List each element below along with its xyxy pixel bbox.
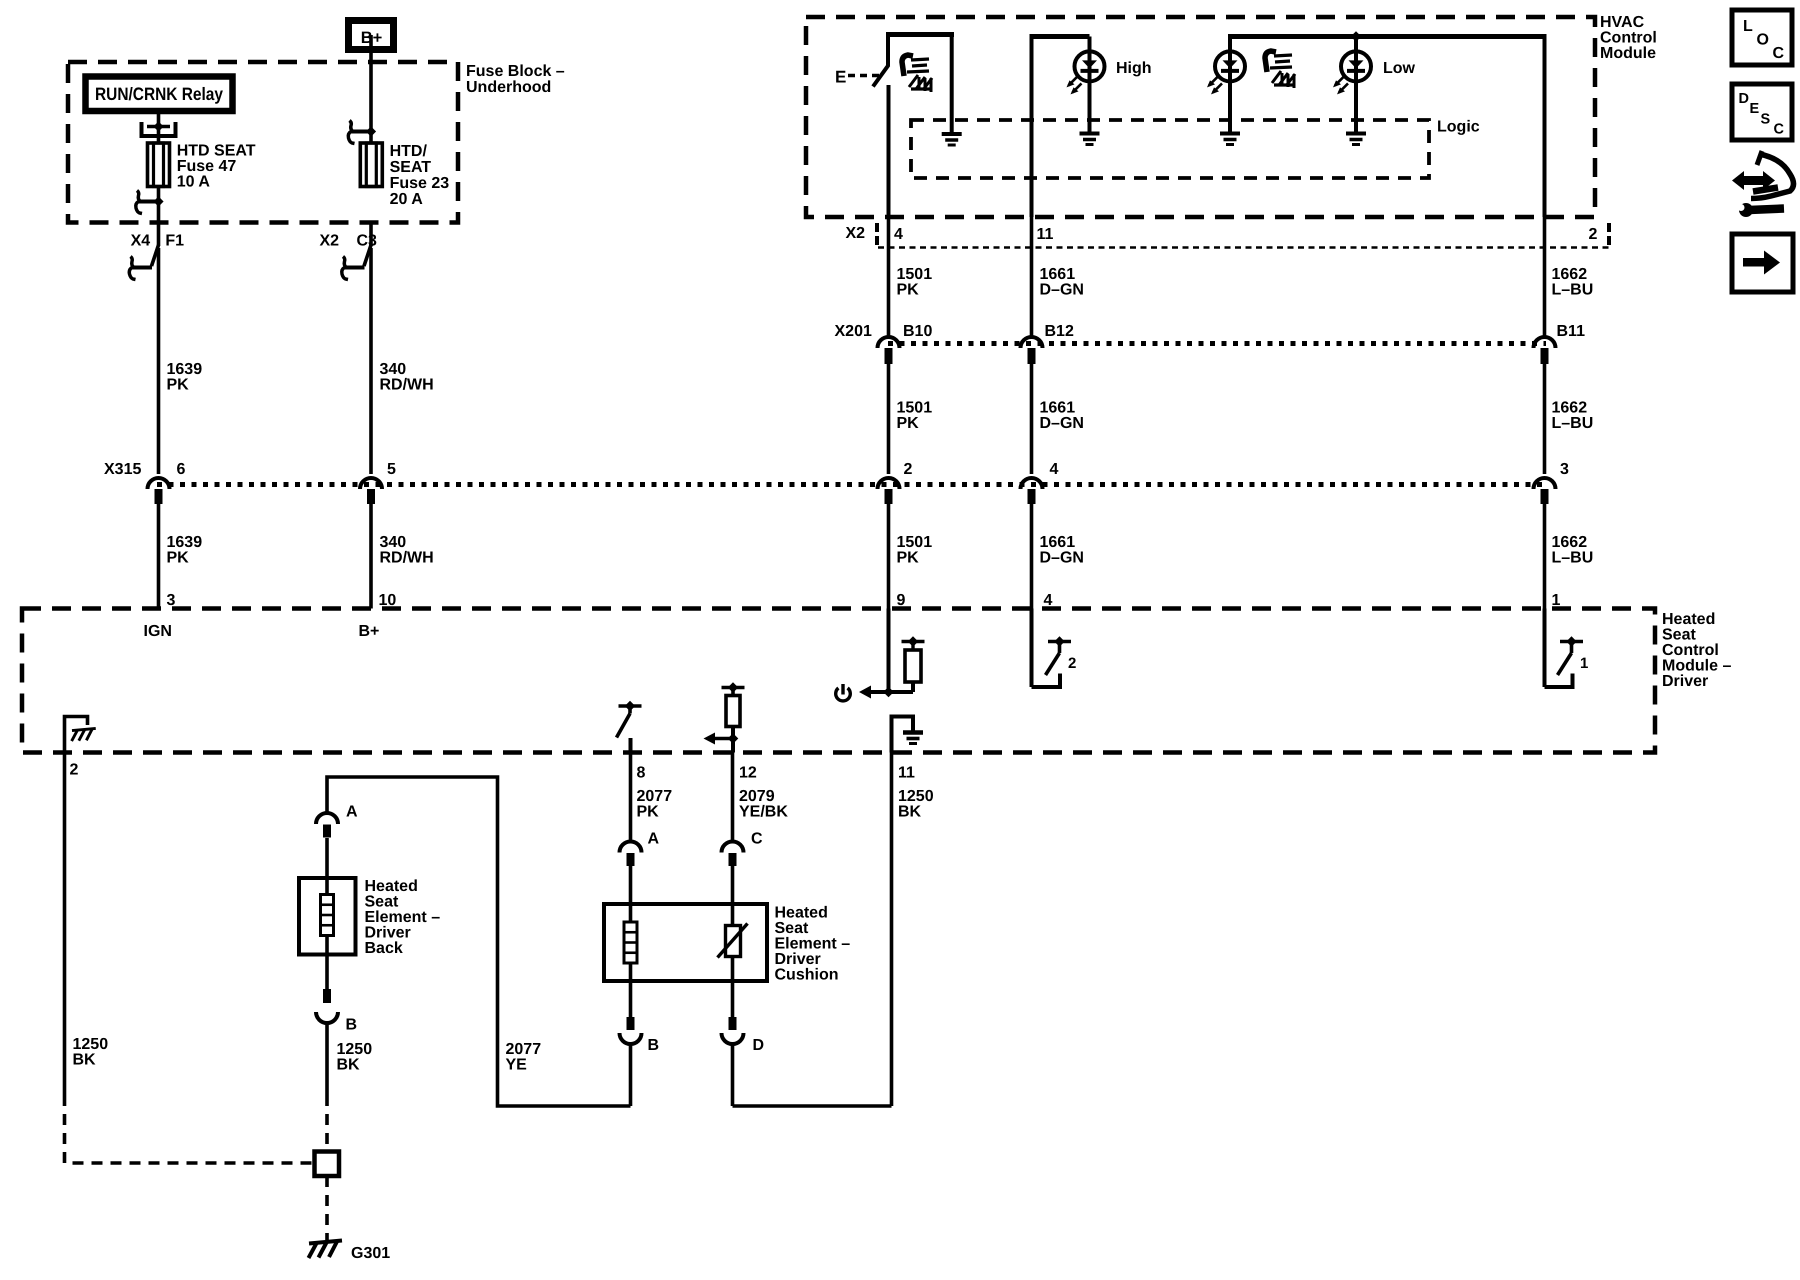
- svg-text:1661: 1661: [1040, 266, 1076, 283]
- wire 1250 BK back element: [325, 1023, 329, 1095]
- svg-text:A: A: [346, 804, 358, 821]
- ground G301: [309, 1241, 343, 1259]
- internal ground (pin 11): [892, 717, 914, 753]
- svg-text:E: E: [1750, 101, 1760, 117]
- wire splice to G301: [325, 1176, 329, 1240]
- svg-text:B+: B+: [359, 623, 380, 640]
- svg-text:RD/WH: RD/WH: [380, 550, 434, 567]
- svg-text:2: 2: [904, 461, 913, 478]
- svg-text:Back: Back: [365, 940, 403, 957]
- ground for left LED: [1228, 81, 1232, 132]
- svg-text:D: D: [1739, 91, 1749, 107]
- svg-text:2: 2: [70, 762, 79, 779]
- indicator LED High: [1088, 51, 1092, 81]
- svg-text:Cushion: Cushion: [775, 967, 839, 984]
- switch contact pin 1 (label 1): [1543, 609, 1547, 688]
- indicator LED Low: [1354, 37, 1358, 52]
- svg-text:D–GN: D–GN: [1040, 415, 1084, 432]
- svg-text:HTD/: HTD/: [390, 143, 428, 160]
- wire 1662 top rail: [1543, 34, 1547, 217]
- X315 pin 5: [360, 478, 382, 489]
- svg-text:PK: PK: [167, 550, 190, 567]
- fuse F23 (HTD/SEAT Fuse 23 20A): [360, 143, 382, 187]
- node E dashed lead: [848, 74, 884, 78]
- switch contact pin 8: [619, 704, 642, 708]
- terminal below fuse 47: [139, 200, 159, 204]
- svg-text:10 A: 10 A: [177, 174, 211, 191]
- svg-text:Low: Low: [1383, 60, 1416, 77]
- svg-text:L–BU: L–BU: [1552, 282, 1594, 299]
- wire relay to fuse 47: [157, 111, 161, 143]
- svg-text:A: A: [648, 831, 660, 848]
- connector A back: [316, 813, 338, 824]
- svg-text:Element –: Element –: [775, 936, 851, 953]
- svg-text:S: S: [1761, 112, 1771, 128]
- wire cushion B down: [629, 1044, 633, 1106]
- wire C to element box: [731, 866, 735, 904]
- svg-text:IGN: IGN: [144, 623, 172, 640]
- svg-text:Fuse Block –: Fuse Block –: [466, 63, 565, 80]
- svg-text:X315: X315: [104, 461, 141, 478]
- svg-text:1501: 1501: [897, 400, 933, 417]
- svg-text:L: L: [1743, 18, 1753, 35]
- connector repair icon: [1742, 176, 1765, 185]
- X315 pin 4: [1021, 478, 1043, 489]
- svg-text:1662: 1662: [1552, 400, 1588, 417]
- LOC icon box: [1732, 10, 1792, 65]
- heated seat element driver cushion box: [604, 904, 767, 981]
- svg-text:Control: Control: [1600, 30, 1657, 47]
- wire 1639 PK lower segment: [157, 504, 161, 609]
- fuse holder clip at fuse 47: [140, 122, 144, 138]
- HVAC control module dashed box: [806, 17, 1595, 217]
- wire A back to element: [325, 838, 329, 878]
- fuse F47 (HTD SEAT Fuse 47 10A): [148, 143, 170, 187]
- svg-text:2077: 2077: [506, 1041, 542, 1058]
- seat heater icon (indicators): [1265, 51, 1295, 88]
- svg-text:Driver: Driver: [365, 925, 411, 942]
- svg-text:B: B: [648, 1037, 660, 1054]
- wire 1501 PK seg1: [887, 217, 891, 337]
- svg-text:PK: PK: [897, 550, 920, 567]
- wire fuse 47 down to X4 terminal: [157, 187, 161, 223]
- switch contact pin 4 (label 2): [1030, 609, 1034, 688]
- svg-text:Fuse 23: Fuse 23: [390, 175, 450, 192]
- connector X4 pin F1 jog: [157, 223, 161, 247]
- logic dashed box: [911, 120, 1429, 178]
- svg-text:PK: PK: [897, 415, 920, 432]
- svg-text:B10: B10: [903, 323, 932, 340]
- svg-text:3: 3: [1560, 461, 1569, 478]
- svg-text:Heated: Heated: [365, 878, 418, 895]
- svg-text:E: E: [835, 68, 846, 87]
- svg-text:D: D: [753, 1037, 765, 1054]
- svg-text:Driver: Driver: [1662, 673, 1708, 690]
- junction on rail: [1351, 31, 1362, 42]
- wire 1661 D-GN seg2: [1030, 364, 1034, 474]
- svg-text:Heated: Heated: [1662, 611, 1715, 628]
- svg-text:4: 4: [1050, 461, 1059, 478]
- wire 2077 PK: [629, 753, 633, 842]
- svg-text:YE/BK: YE/BK: [739, 804, 788, 821]
- svg-text:O: O: [1757, 32, 1769, 49]
- X315 pin 3: [1534, 478, 1556, 489]
- svg-text:8: 8: [637, 765, 646, 782]
- resistor + arrow pin 12: [722, 686, 745, 690]
- arrow to power symbol: [869, 690, 889, 694]
- connector B cushion: [629, 981, 633, 1018]
- junction dot pin 9 branch: [883, 687, 894, 698]
- back heating element: [325, 878, 329, 895]
- svg-text:D–GN: D–GN: [1040, 550, 1084, 567]
- svg-text:1250: 1250: [898, 788, 934, 805]
- svg-text:L–BU: L–BU: [1552, 415, 1594, 432]
- wire 1661 D-GN seg1: [1030, 217, 1034, 337]
- High LED emission arrows: [1069, 76, 1078, 85]
- svg-text:SEAT: SEAT: [390, 159, 432, 176]
- wire 1250 BK left (pin 2): [63, 753, 67, 1096]
- wire 1501 PK seg2: [887, 364, 891, 474]
- heated seat switch in HVAC module: [886, 32, 954, 37]
- internal ground (pin 2): [65, 717, 88, 753]
- svg-text:YE: YE: [506, 1057, 528, 1074]
- svg-text:C: C: [751, 831, 763, 848]
- wire 1250 BK bottom run: [733, 1104, 892, 1108]
- svg-text:2077: 2077: [637, 788, 673, 805]
- connector A cushion: [620, 842, 642, 853]
- svg-text:Seat: Seat: [1662, 627, 1696, 644]
- svg-text:B11: B11: [1557, 323, 1586, 340]
- svg-text:Fuse 47: Fuse 47: [177, 158, 237, 175]
- svg-text:1501: 1501: [897, 266, 933, 283]
- svg-text:1250: 1250: [337, 1041, 373, 1058]
- svg-text:Underhood: Underhood: [466, 79, 551, 96]
- svg-text:G301: G301: [351, 1245, 390, 1262]
- wire 2079 YE/BK: [731, 753, 735, 842]
- splice S301: [315, 1152, 340, 1177]
- wire 1250 BK right: [890, 753, 894, 1107]
- svg-text:5: 5: [387, 461, 396, 478]
- svg-text:Module –: Module –: [1662, 658, 1731, 675]
- connector B back: [325, 955, 329, 993]
- left LED emission arrows: [1209, 76, 1218, 85]
- power symbol: [836, 688, 851, 701]
- svg-text:RD/WH: RD/WH: [380, 377, 434, 394]
- svg-text:2: 2: [1068, 655, 1076, 672]
- svg-text:BK: BK: [73, 1052, 97, 1069]
- svg-text:1250: 1250: [73, 1036, 109, 1053]
- X201 pin B12: [1021, 337, 1043, 348]
- wire 1501 PK inside module: [887, 609, 891, 693]
- ground for switch branch: [950, 36, 954, 132]
- cushion heating element: [629, 904, 633, 922]
- svg-text:1662: 1662: [1552, 266, 1588, 283]
- svg-text:B: B: [346, 1017, 358, 1034]
- svg-text:Heated: Heated: [775, 905, 828, 922]
- X315 pin 2: [878, 478, 900, 489]
- svg-text:B12: B12: [1045, 323, 1074, 340]
- svg-text:340: 340: [380, 534, 407, 551]
- svg-text:Seat: Seat: [775, 920, 809, 937]
- svg-text:C: C: [1773, 45, 1785, 62]
- wire 1662 L-BU seg3: [1543, 504, 1547, 609]
- battery feed B+ box: [349, 21, 394, 50]
- svg-text:X201: X201: [835, 323, 872, 340]
- svg-text:X2: X2: [320, 233, 340, 250]
- svg-text:6: 6: [177, 461, 186, 478]
- svg-text:Module: Module: [1600, 45, 1656, 62]
- wire 2077 YE route: [327, 777, 631, 1106]
- svg-text:BK: BK: [337, 1057, 361, 1074]
- wire 340 RD/WH upper segment: [369, 248, 373, 474]
- svg-text:C: C: [1774, 122, 1785, 138]
- connector D cushion: [731, 981, 735, 1018]
- wire 1661 D-GN seg3: [1030, 504, 1034, 609]
- svg-text:Logic: Logic: [1437, 119, 1480, 136]
- svg-text:PK: PK: [897, 282, 920, 299]
- svg-text:X2: X2: [846, 225, 866, 242]
- svg-text:PK: PK: [637, 804, 660, 821]
- wire cushion D down: [731, 1044, 735, 1106]
- indicator LED left (unlabeled): [1228, 37, 1232, 52]
- wire 1661 into High LED: [1030, 34, 1034, 217]
- svg-text:1661: 1661: [1040, 400, 1076, 417]
- svg-text:PK: PK: [167, 377, 190, 394]
- wire 340 RD/WH lower segment: [369, 504, 373, 609]
- svg-text:Seat: Seat: [365, 894, 399, 911]
- wire B+ to fuse 23: [369, 35, 373, 143]
- svg-text:2: 2: [1589, 226, 1598, 243]
- svg-text:C3: C3: [357, 233, 378, 250]
- svg-text:2079: 2079: [739, 788, 775, 805]
- svg-text:Driver: Driver: [775, 951, 821, 968]
- svg-text:1501: 1501: [897, 534, 933, 551]
- ground for Low LED: [1354, 81, 1358, 132]
- terminal above fuse 23: [351, 130, 371, 134]
- seat heater icon (switch): [902, 55, 932, 92]
- fuse block underhood dashed box: [68, 62, 458, 223]
- connector C cushion: [722, 842, 744, 853]
- svg-text:F1: F1: [165, 233, 184, 250]
- wire A to element box: [629, 866, 633, 904]
- DESC icon box: [1732, 84, 1792, 140]
- svg-text:L–BU: L–BU: [1552, 550, 1594, 567]
- svg-text:D–GN: D–GN: [1040, 282, 1084, 299]
- internal resistor R (pin 9): [889, 690, 914, 694]
- svg-text:1662: 1662: [1552, 534, 1588, 551]
- svg-text:Control: Control: [1662, 642, 1719, 659]
- connector X2 pin C3 jog: [369, 223, 373, 247]
- forward arrow icon box: [1732, 234, 1793, 292]
- svg-text:RUN/CRNK Relay: RUN/CRNK Relay: [95, 84, 223, 104]
- Low LED emission arrows: [1335, 76, 1344, 85]
- svg-text:4: 4: [894, 226, 903, 243]
- svg-text:1639: 1639: [167, 361, 203, 378]
- wire 1501 PK seg3: [887, 504, 891, 609]
- X201 pin B11: [1534, 337, 1556, 348]
- RUN/CRNK relay K box: [86, 77, 233, 112]
- svg-text:High: High: [1116, 60, 1152, 77]
- svg-text:X4: X4: [131, 233, 151, 250]
- svg-text:HVAC: HVAC: [1600, 14, 1645, 31]
- X201 pin B10: [878, 337, 900, 348]
- wire 1662 L-BU seg2: [1543, 364, 1547, 474]
- svg-text:1639: 1639: [167, 534, 203, 551]
- svg-text:20 A: 20 A: [390, 191, 424, 208]
- X315 pin 6: [148, 478, 170, 489]
- svg-text:11: 11: [1037, 226, 1054, 243]
- heated seat control module dashed box: [22, 609, 1655, 753]
- heated seat element driver back box: [299, 878, 356, 955]
- wire 1662 L-BU seg1: [1543, 217, 1547, 337]
- svg-text:HTD SEAT: HTD SEAT: [177, 143, 256, 160]
- svg-text:BK: BK: [898, 804, 922, 821]
- ground for High LED: [1088, 81, 1092, 132]
- svg-text:340: 340: [380, 361, 407, 378]
- svg-text:11: 11: [898, 765, 915, 782]
- svg-text:12: 12: [739, 765, 757, 782]
- cushion temperature sensor: [731, 904, 735, 926]
- svg-text:1661: 1661: [1040, 534, 1076, 551]
- svg-text:1: 1: [1580, 655, 1588, 672]
- svg-text:Element –: Element –: [365, 909, 441, 926]
- wire 1639 PK upper segment: [157, 248, 161, 474]
